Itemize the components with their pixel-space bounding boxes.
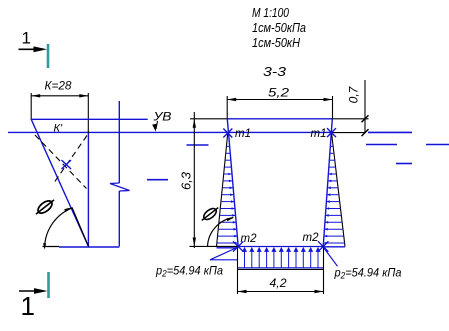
left pressure diagram outer edge xyxy=(217,133,228,247)
svg-text:К=28: К=28 xyxy=(45,79,72,93)
svg-text:6,3: 6,3 xyxy=(179,171,194,190)
svg-text:0,7: 0,7 xyxy=(347,85,361,103)
deck extension line left (black) xyxy=(190,118,227,120)
node m1 right (x mark) xyxy=(327,128,336,137)
dashed slip line A xyxy=(35,135,87,189)
phi symbol (left figure) xyxy=(33,196,57,217)
phi symbol (wall) xyxy=(199,204,220,223)
deck line between walls (blue) xyxy=(227,118,332,120)
4,2 right extension line xyxy=(323,269,325,294)
angle base line (black horizontal) xyxy=(43,246,60,248)
5,2 dimension line xyxy=(227,99,332,101)
base slab bottom line (black) xyxy=(238,268,324,270)
node m2 left (x mark) xyxy=(233,241,243,251)
section mark 1 top: teal cutting-plane tick xyxy=(47,44,50,68)
svg-text:m2: m2 xyxy=(241,233,258,245)
svg-text:m1: m1 xyxy=(311,128,327,140)
right pressure diagram hatching arrows xyxy=(331,145,334,147)
svg-text:3-3: 3-3 xyxy=(263,64,287,79)
svg-text:1см-50кПа: 1см-50кПа xyxy=(252,20,306,35)
left figure rear wall (blue vertical with break) xyxy=(118,101,120,183)
K=28 dimension line xyxy=(31,95,88,97)
K=28 left extension line xyxy=(30,93,32,120)
svg-text:1: 1 xyxy=(22,29,31,48)
angle arc phi (left figure) xyxy=(45,208,73,247)
left figure wall lower part (blue vertical) xyxy=(87,133,89,247)
water surface dash far right xyxy=(426,144,449,146)
svg-text:М 1:100: М 1:100 xyxy=(252,5,290,20)
svg-text:К': К' xyxy=(54,123,63,135)
leader right p2 xyxy=(323,247,337,266)
4,2 dimension line xyxy=(238,291,324,293)
K=28 right extension line xyxy=(87,93,89,133)
svg-text:4,2: 4,2 xyxy=(270,276,287,290)
УВ level arrow xyxy=(156,121,158,129)
svg-text:1: 1 xyxy=(21,291,35,321)
section mark 1 bottom: teal cutting-plane tick xyxy=(47,272,50,298)
angle arc phi (wall) xyxy=(208,218,234,247)
5,2 right extension line xyxy=(332,96,334,119)
0,7 oblique tick top xyxy=(362,115,369,122)
6,3 dimension line vertical xyxy=(193,112,195,248)
base uplift bottom line (blue) xyxy=(238,267,324,269)
0,7 dimension vertical line xyxy=(364,80,366,133)
section mark 1 bottom: arrow xyxy=(19,290,36,292)
5,2 left extension line xyxy=(226,96,228,119)
base slab left edge xyxy=(237,247,239,270)
break symbol zigzag xyxy=(110,183,130,191)
m2 level line (black) xyxy=(190,245,239,247)
dashed slip line B xyxy=(55,136,88,183)
base uplift arrows xyxy=(244,250,246,268)
angle side line along diagonal xyxy=(72,208,89,247)
water surface dash right short xyxy=(396,163,412,165)
left pressure diagram bottom edge xyxy=(217,247,239,249)
svg-text:5,2: 5,2 xyxy=(268,86,289,100)
left pressure diagram hatching arrows xyxy=(226,145,229,147)
node m1 left (x mark) xyxy=(223,129,232,138)
water surface dash left of 6,3 line xyxy=(187,144,209,146)
base slab right edge xyxy=(323,247,325,270)
left figure bottom edge blue xyxy=(59,246,119,248)
right pressure diagram bottom edge xyxy=(323,246,345,248)
left figure top edge (blue deck line) xyxy=(31,118,148,120)
right pressure diagram outer edge xyxy=(332,133,346,247)
right wall m1-m2 (blue) xyxy=(323,119,332,247)
svg-text:УВ: УВ xyxy=(152,110,171,124)
node m2 right (x mark) xyxy=(318,241,328,251)
water surface dash left lower xyxy=(147,179,168,181)
svg-text:1см-50кН: 1см-50кН xyxy=(252,35,301,50)
0,7 oblique tick bottom xyxy=(362,129,369,136)
svg-text:m1: m1 xyxy=(235,128,251,140)
blue x intersection mark xyxy=(62,160,72,169)
deck extension line right (black) xyxy=(332,118,368,120)
leader left p2 xyxy=(210,247,238,260)
water surface dash right medium xyxy=(366,144,397,146)
section mark 1 top: arrow xyxy=(19,48,37,50)
base slab top line (blue, between m2 points) xyxy=(238,246,323,248)
svg-text:m2: m2 xyxy=(303,232,320,244)
water line УВ (long blue horizontal) xyxy=(8,131,332,133)
water line black segment under 0,7 dimension xyxy=(332,132,366,134)
4,2 left extension line xyxy=(237,269,239,294)
left wall m1-m2 (blue) xyxy=(227,119,238,247)
left figure battered wall (blue diagonal) xyxy=(31,119,88,246)
